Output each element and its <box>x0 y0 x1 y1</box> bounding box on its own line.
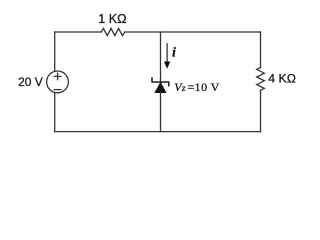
svg-text:20 V: 20 V <box>18 75 43 89</box>
voltage source V1 circle <box>47 71 69 93</box>
wire left branch lower <box>54 93 56 132</box>
wire right branch lower <box>260 90 262 131</box>
wire top-right segment <box>125 31 261 33</box>
voltage source minus sign <box>54 89 61 91</box>
svg-text:1 KΩ: 1 KΩ <box>98 12 126 26</box>
zener diode D1 anode triangle <box>155 82 167 93</box>
svg-text:Vz=10 V: Vz=10 V <box>174 80 220 94</box>
current arrow head <box>164 62 170 69</box>
wire middle branch lower <box>160 93 162 132</box>
wire left branch upper <box>54 32 56 71</box>
zener diode D1 cathode bar with bent ends <box>152 78 169 86</box>
wire top-left segment <box>55 31 101 33</box>
wire middle branch upper <box>160 32 162 82</box>
resistor R2 zigzag <box>257 68 265 91</box>
resistor R1 zigzag <box>101 28 125 35</box>
svg-text:i: i <box>172 46 176 61</box>
current arrow shaft <box>166 44 168 64</box>
wire bottom <box>55 131 261 133</box>
wire right branch upper <box>260 32 262 68</box>
svg-text:4 KΩ: 4 KΩ <box>268 72 296 86</box>
voltage source plus sign <box>54 73 61 80</box>
